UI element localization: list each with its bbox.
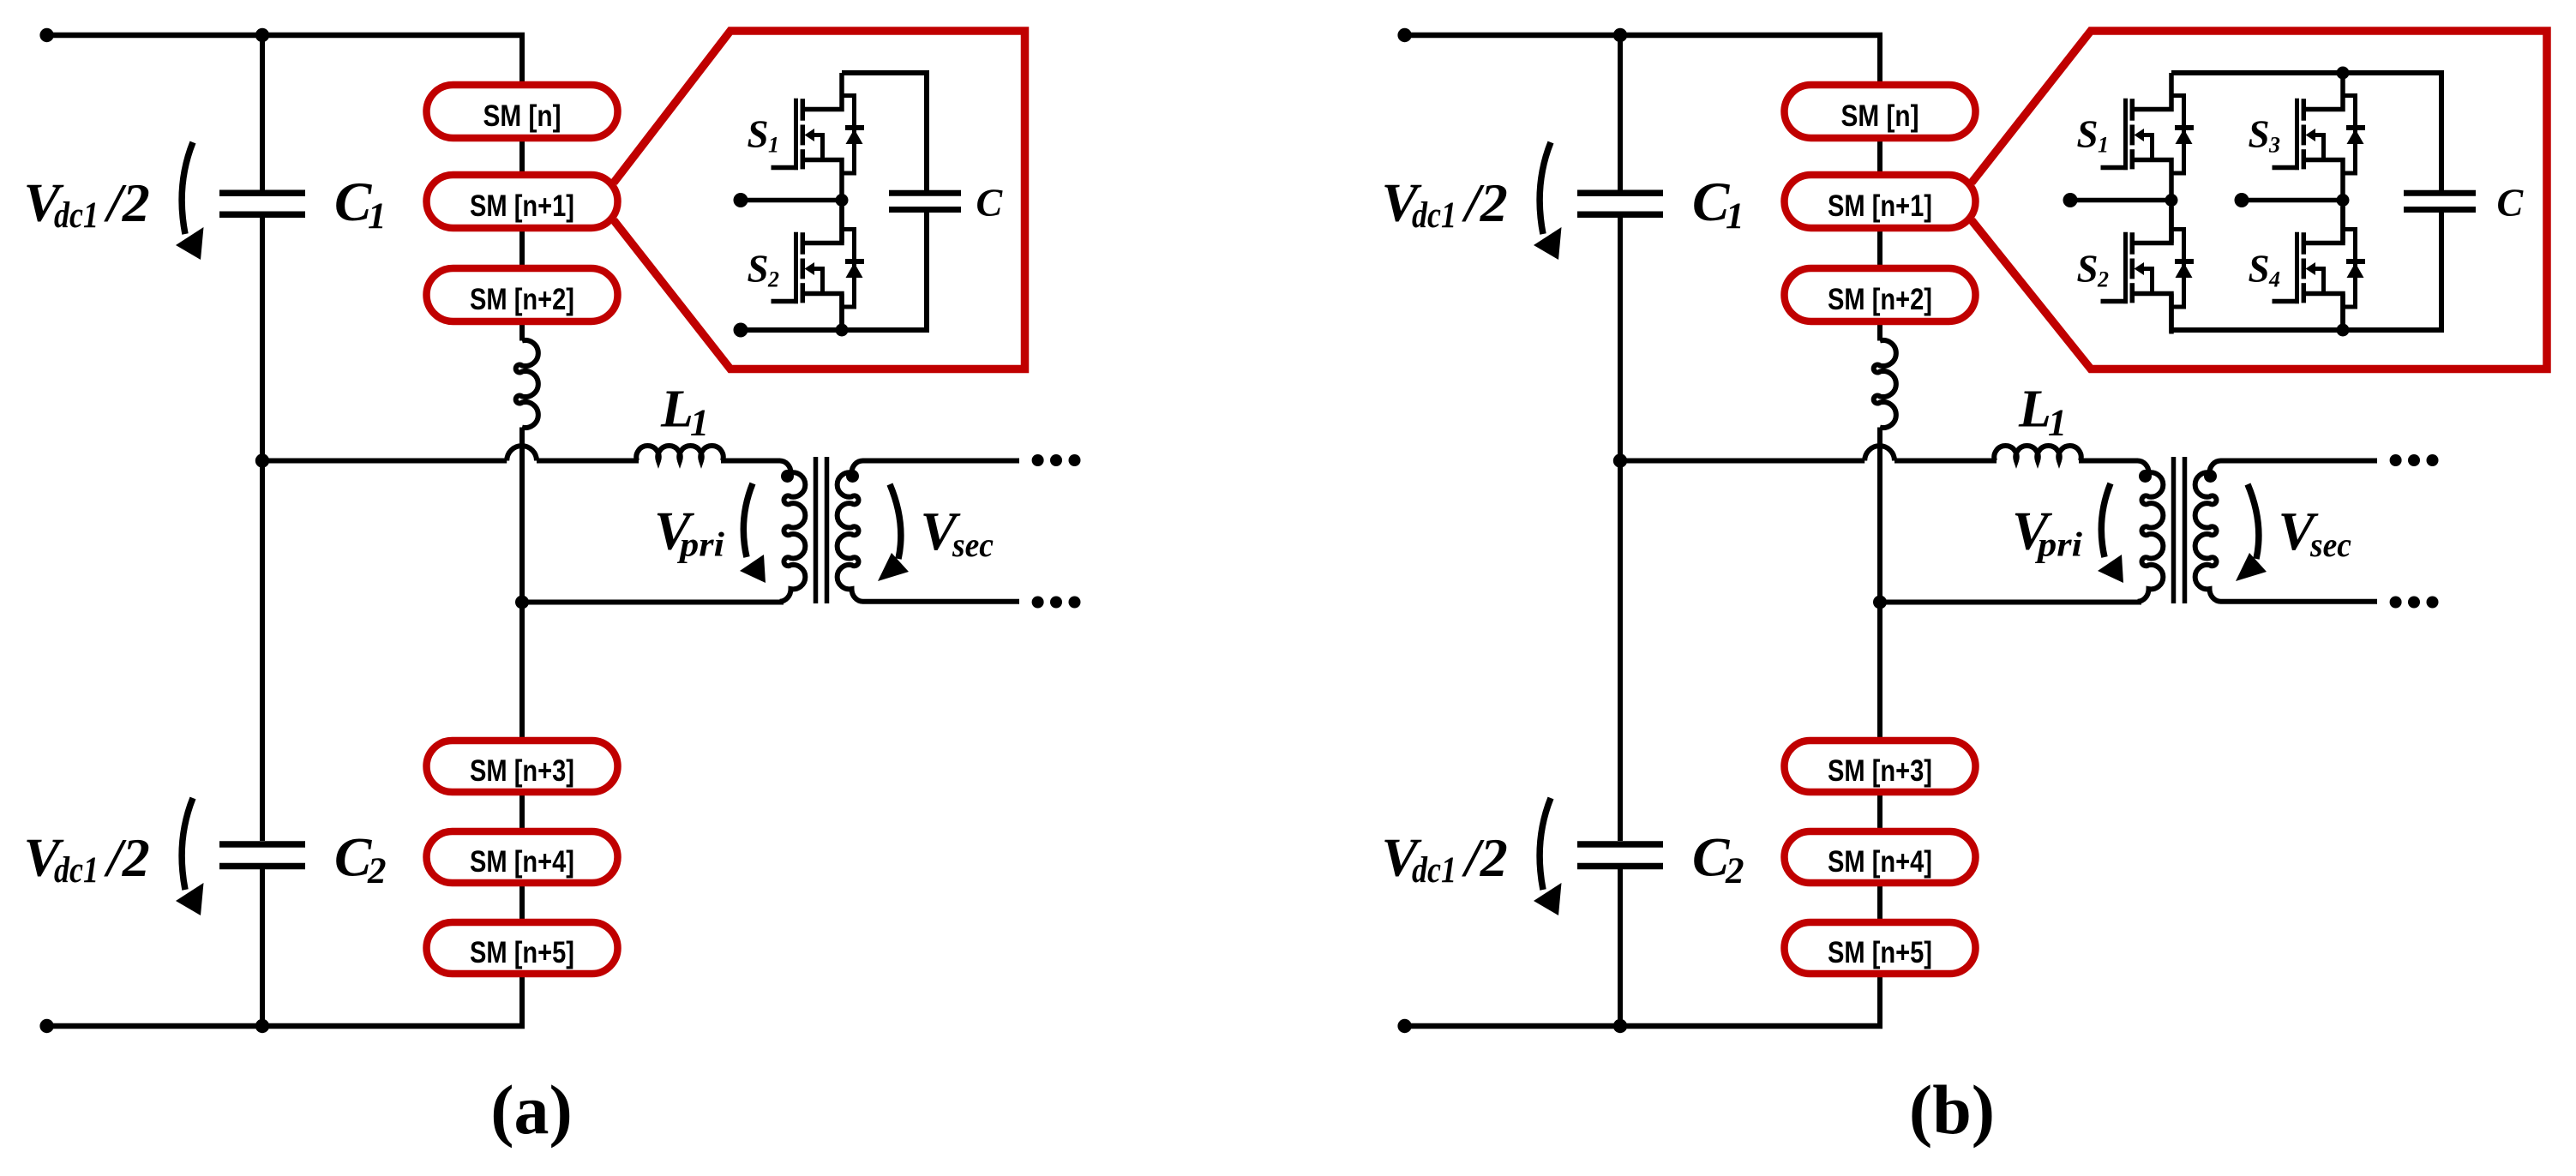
callout lines from SM[n+1] to detail box (a) <box>614 31 1025 369</box>
inductor upper arm <box>1874 340 1896 428</box>
svg-text:2: 2 <box>367 851 387 891</box>
body diode branch wire <box>842 230 855 308</box>
body diode branch wire <box>842 96 855 174</box>
wire middle rail right of hop <box>1894 459 1997 464</box>
node midpoint junction <box>2165 194 2178 207</box>
svg-text:S: S <box>748 113 769 156</box>
node secondary continuation dots bottom <box>2390 597 2402 609</box>
gate bar <box>794 232 798 303</box>
arrow voltage reference lower <box>1540 798 1551 890</box>
wire capacitor branch lower (b) <box>2439 210 2444 333</box>
channel bar <box>801 232 806 255</box>
source connection wire <box>802 160 842 201</box>
node secondary polarity dot <box>2204 470 2217 483</box>
wire left bus lower segment <box>260 869 265 1029</box>
svg-text:SM [n+1]: SM [n+1] <box>1828 189 1932 223</box>
gate bar <box>2123 99 2128 170</box>
node bottom bus junction <box>1613 1019 1627 1033</box>
wire left bus upper segment <box>1618 33 1623 190</box>
wire arm to bottom rail <box>1877 428 1882 1029</box>
diode cathode bar <box>845 259 864 264</box>
gate lead wire <box>2101 165 2129 171</box>
svg-text:SM [n+5]: SM [n+5] <box>1828 936 1932 969</box>
submodule SM[n] <box>427 85 618 138</box>
drain connection wire <box>2303 207 2343 243</box>
diode cathode bar <box>2346 259 2365 264</box>
diode triangle <box>846 129 863 145</box>
node midpoint junction <box>836 194 849 207</box>
node submodule bottom terminal (a) <box>734 323 748 338</box>
node primary polarity dot <box>781 470 794 483</box>
svg-text:SM [n+3]: SM [n+3] <box>470 754 574 788</box>
svg-text:SM [n+1]: SM [n+1] <box>470 189 574 223</box>
source connection wire <box>2132 160 2171 201</box>
arrow secondary voltage <box>2248 484 2259 559</box>
svg-text:pri: pri <box>677 525 724 564</box>
submodule SM[n+2] <box>427 268 618 321</box>
svg-text:1: 1 <box>690 402 709 444</box>
diode cathode bar <box>2346 125 2365 130</box>
wire rail into transformer <box>2079 459 2138 464</box>
body arrow and tie <box>805 129 815 141</box>
svg-text:C: C <box>334 827 372 889</box>
drain connection wire <box>2132 207 2171 243</box>
body arrow and tie <box>2135 262 2145 275</box>
wire left bus lower segment <box>1618 869 1623 1029</box>
channel bar <box>2302 232 2307 255</box>
wire capacitor branch upper (a) <box>924 70 929 193</box>
wire submodule bottom rail (a) <box>741 327 929 333</box>
channel bar <box>2130 232 2135 255</box>
svg-text:C: C <box>1692 171 1730 233</box>
wire capacitor branch upper (b) <box>2439 70 2444 193</box>
node secondary polarity dot <box>846 470 859 483</box>
diode triangle <box>2347 263 2364 279</box>
diode cathode bar <box>845 125 864 130</box>
wire left bus middle segment <box>260 218 265 841</box>
svg-text:/2: /2 <box>104 827 150 888</box>
drain connection wire <box>2303 73 2343 110</box>
channel bar <box>2130 99 2135 121</box>
wire bottom rail <box>44 1023 525 1029</box>
source connection wire <box>2132 294 2171 334</box>
node negative DC terminal <box>1397 1019 1411 1033</box>
svg-text:sec: sec <box>2309 525 2351 564</box>
capacitor C2 <box>1577 841 1663 848</box>
diode triangle <box>2347 129 2364 145</box>
svg-text:SM [n+2]: SM [n+2] <box>470 283 574 316</box>
wire crossover hop <box>507 446 537 460</box>
svg-text:C: C <box>976 181 1004 225</box>
gate lead wire <box>2101 299 2129 304</box>
svg-text:dc1: dc1 <box>1412 850 1456 891</box>
submodule SM[n+4] <box>427 831 618 883</box>
svg-text:(a): (a) <box>490 1071 573 1149</box>
wire left bus middle segment <box>1618 218 1623 841</box>
node secondary continuation dots bottom <box>1032 597 1044 609</box>
channel bar <box>2302 99 2307 121</box>
node primary bottom junction <box>515 596 529 609</box>
submodule SM[n+5] <box>1785 922 1976 974</box>
svg-text:pri: pri <box>2035 525 2082 564</box>
node negative DC terminal <box>39 1019 53 1033</box>
svg-text:S: S <box>2249 113 2270 156</box>
wire drain of lower switch to midpoint <box>2340 201 2345 243</box>
svg-text:1: 1 <box>1726 196 1744 237</box>
svg-text:C: C <box>334 171 372 233</box>
svg-text:S: S <box>2077 248 2099 291</box>
svg-text:SM [n]: SM [n] <box>483 99 561 133</box>
wire middle rail right of hop <box>537 459 639 464</box>
body diode branch wire <box>2343 230 2356 308</box>
svg-text:dc1: dc1 <box>54 195 99 236</box>
wire submodule top rail (b) <box>2171 70 2441 75</box>
svg-text:4: 4 <box>2268 267 2280 292</box>
channel bar <box>801 99 806 121</box>
source connection wire <box>802 294 842 334</box>
wire submodule top rail (a) <box>842 70 927 75</box>
diode cathode bar <box>2175 125 2194 130</box>
svg-text:C: C <box>2497 181 2525 225</box>
svg-text:1: 1 <box>368 196 387 237</box>
svg-text:S: S <box>2077 113 2099 156</box>
svg-text:1: 1 <box>2048 402 2067 444</box>
node submodule input terminal <box>2063 193 2078 207</box>
svg-text:C: C <box>1692 827 1730 889</box>
submodule SM[n+4] <box>1785 831 1976 883</box>
gate lead wire <box>772 165 799 171</box>
wire submodule input lead <box>741 198 842 203</box>
gate bar <box>2295 99 2299 170</box>
svg-text:/2: /2 <box>104 172 150 233</box>
node primary bottom junction <box>1873 596 1887 609</box>
svg-text:2: 2 <box>2097 267 2109 292</box>
drain connection wire <box>802 207 842 243</box>
drain connection wire <box>802 73 842 110</box>
transformer primary winding <box>2138 461 2164 602</box>
svg-text:sec: sec <box>952 525 994 564</box>
arrow primary voltage <box>743 483 753 557</box>
transformer primary winding <box>780 461 806 602</box>
wire submodule input lead <box>2242 198 2343 203</box>
wire bottom rail <box>1402 1023 1882 1029</box>
node bottom rail junction (a) <box>836 324 849 337</box>
wire top rail <box>44 33 525 39</box>
wire source of lower switch to bottom rail <box>2169 294 2174 333</box>
wire arm to bottom rail <box>519 428 525 1029</box>
source connection wire <box>2303 160 2343 201</box>
wire rail into transformer <box>721 459 780 464</box>
wire submodule bottom rail (b) <box>2171 327 2444 333</box>
svg-text:SM [n+3]: SM [n+3] <box>1828 754 1932 788</box>
wire upper arm SM string <box>519 33 525 341</box>
body arrow and tie <box>2306 262 2316 275</box>
svg-text:SM [n+4]: SM [n+4] <box>1828 845 1932 879</box>
capacitor C1 <box>219 190 305 197</box>
node top rail junction (b) <box>2337 67 2350 80</box>
node submodule input terminal <box>734 193 748 207</box>
submodule SM[n+5] <box>427 922 618 974</box>
wire source of lower switch to bottom rail <box>2340 294 2345 333</box>
svg-text:dc1: dc1 <box>54 850 99 891</box>
diode triangle <box>2176 263 2193 279</box>
node positive DC terminal <box>39 28 53 42</box>
node bottom bus junction <box>255 1019 269 1033</box>
body arrow and tie <box>805 262 815 275</box>
submodule SM[n+3] <box>427 741 618 792</box>
submodule SM[n+2] <box>1785 268 1976 321</box>
node primary polarity dot <box>2139 470 2152 483</box>
capacitor C submodule (a) <box>889 190 961 196</box>
gate lead wire <box>2273 299 2300 304</box>
inductor upper arm <box>516 340 538 428</box>
wire drain of lower switch to midpoint <box>2169 201 2174 243</box>
svg-text:L: L <box>660 381 694 439</box>
wire drain of lower switch to midpoint <box>839 201 844 243</box>
body diode branch wire <box>2171 230 2184 308</box>
capacitor C2 <box>219 841 305 848</box>
inductor L1 <box>1994 446 2081 460</box>
node bottom rail junction (b) <box>2337 324 2350 337</box>
gate bar <box>794 99 798 170</box>
body arrow and tie <box>2306 129 2316 141</box>
node middle rail junction on bus <box>1613 453 1627 467</box>
svg-text:1: 1 <box>768 133 779 158</box>
wire middle rail left of hop <box>1620 459 1864 464</box>
wire submodule input lead <box>2070 198 2171 203</box>
wire primary bottom rail <box>522 600 784 605</box>
drain connection wire <box>2132 73 2171 110</box>
svg-text:S: S <box>2249 248 2270 291</box>
capacitor C submodule (b) <box>2404 190 2476 196</box>
submodule SM[n+3] <box>1785 741 1976 792</box>
submodule SM[n] <box>1785 85 1976 138</box>
arrow voltage reference upper <box>1540 142 1551 234</box>
wire middle rail left of hop <box>262 459 507 464</box>
wire source of lower switch to bottom rail <box>839 294 844 333</box>
capacitor C1 <box>1577 190 1663 197</box>
svg-text:L: L <box>2018 381 2051 439</box>
transformer core <box>814 457 819 603</box>
svg-text:(b): (b) <box>1909 1071 1995 1149</box>
gate lead wire <box>2273 165 2300 171</box>
callout lines from SM[n+1] to detail box (b) <box>1972 31 2547 369</box>
wire capacitor branch lower (a) <box>924 210 929 333</box>
svg-text:SM [n+4]: SM [n+4] <box>470 845 574 879</box>
source connection wire <box>2303 294 2343 334</box>
svg-text:3: 3 <box>2268 133 2280 158</box>
svg-text:/2: /2 <box>1462 827 1508 888</box>
svg-text:2: 2 <box>767 267 779 292</box>
svg-text:2: 2 <box>1725 851 1744 891</box>
diode cathode bar <box>2175 259 2194 264</box>
svg-text:SM [n+2]: SM [n+2] <box>1828 283 1932 316</box>
node positive DC terminal <box>1397 28 1411 42</box>
wire left bus upper segment <box>260 33 265 190</box>
transformer secondary winding <box>838 461 1019 602</box>
svg-text:dc1: dc1 <box>1412 195 1456 236</box>
node midpoint junction <box>2337 194 2350 207</box>
svg-text:/2: /2 <box>1462 172 1508 233</box>
svg-text:S: S <box>748 248 769 291</box>
wire crossover hop <box>1864 446 1894 460</box>
transformer secondary winding <box>2195 461 2377 602</box>
transformer core <box>2171 457 2177 603</box>
node secondary continuation dots top <box>2390 454 2402 466</box>
wire top rail <box>1402 33 1882 39</box>
submodule SM[n+1] <box>1785 175 1976 228</box>
body diode branch wire <box>2343 96 2356 174</box>
svg-text:SM [n]: SM [n] <box>1841 99 1919 133</box>
node top bus junction <box>255 28 269 42</box>
diode triangle <box>2176 129 2193 145</box>
inductor L1 <box>636 446 723 460</box>
arrow primary voltage <box>2101 483 2111 557</box>
gate bar <box>2123 232 2128 303</box>
node middle rail junction on bus <box>255 453 269 467</box>
node top bus junction <box>1613 28 1627 42</box>
gate bar <box>2295 232 2299 303</box>
arrow secondary voltage <box>890 484 901 559</box>
node submodule input terminal <box>2235 193 2249 207</box>
svg-text:SM [n+5]: SM [n+5] <box>470 936 574 969</box>
svg-text:1: 1 <box>2098 133 2109 158</box>
arrow voltage reference lower <box>182 798 193 890</box>
gate lead wire <box>772 299 799 304</box>
node secondary continuation dots top <box>1032 454 1044 466</box>
submodule SM[n+1] <box>427 175 618 228</box>
arrow voltage reference upper <box>182 142 193 234</box>
wire primary bottom rail <box>1880 600 2141 605</box>
body diode branch wire <box>2171 96 2184 174</box>
wire upper arm SM string <box>1877 33 1882 341</box>
diode triangle <box>846 263 863 279</box>
body arrow and tie <box>2135 129 2145 141</box>
